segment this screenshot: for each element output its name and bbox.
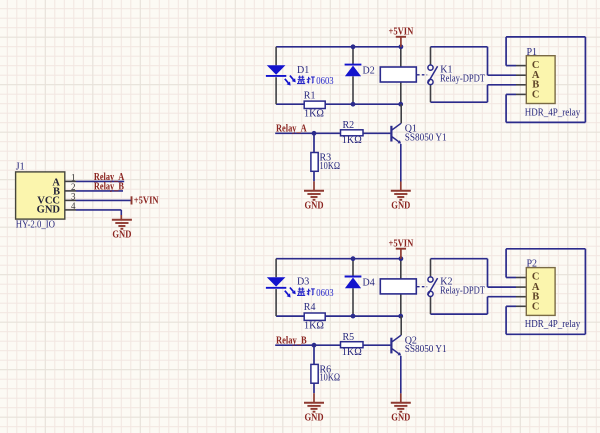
- svg-text:R1: R1: [304, 90, 316, 101]
- svg-text:0603: 0603: [316, 76, 333, 87]
- svg-text:GND: GND: [112, 230, 131, 241]
- svg-text:D4: D4: [363, 277, 375, 288]
- svg-text:SS8050 Y1: SS8050 Y1: [405, 132, 447, 143]
- svg-text:D1: D1: [297, 65, 309, 76]
- svg-text:C: C: [532, 89, 540, 100]
- svg-text:GND: GND: [305, 201, 324, 212]
- svg-text:R5: R5: [343, 332, 355, 343]
- svg-text:2: 2: [71, 182, 76, 192]
- svg-text:+5VIN: +5VIN: [134, 195, 159, 206]
- svg-text:Relay_A: Relay_A: [276, 123, 307, 134]
- svg-text:D2: D2: [363, 66, 375, 77]
- svg-text:Relay_B: Relay_B: [94, 181, 124, 192]
- svg-text:1KΩ: 1KΩ: [342, 135, 362, 146]
- svg-text:+5VIN: +5VIN: [389, 27, 414, 38]
- svg-text:C: C: [532, 301, 540, 312]
- svg-text:GND: GND: [391, 201, 410, 212]
- svg-text:1KΩ: 1KΩ: [304, 109, 324, 120]
- svg-text:HDR_4P_relay: HDR_4P_relay: [525, 319, 580, 330]
- svg-text:10KΩ: 10KΩ: [320, 373, 341, 384]
- svg-text:R2: R2: [343, 120, 355, 131]
- svg-text:+5VIN: +5VIN: [389, 239, 414, 250]
- svg-text:GND: GND: [305, 413, 324, 424]
- svg-text:Relay-DPDT: Relay-DPDT: [440, 74, 485, 85]
- svg-text:HDR_4P_relay: HDR_4P_relay: [525, 107, 580, 118]
- svg-text:4: 4: [71, 201, 76, 211]
- svg-text:1KΩ: 1KΩ: [304, 321, 324, 332]
- svg-text:J1: J1: [16, 161, 25, 172]
- svg-text:D3: D3: [297, 277, 309, 288]
- svg-text:1KΩ: 1KΩ: [342, 347, 362, 358]
- svg-text:HY-2.0_IO: HY-2.0_IO: [16, 219, 55, 230]
- svg-text:10KΩ: 10KΩ: [320, 161, 341, 172]
- svg-text:3: 3: [71, 192, 76, 202]
- svg-text:GND: GND: [37, 205, 61, 216]
- svg-text:Relay-DPDT: Relay-DPDT: [440, 285, 485, 296]
- svg-text:GND: GND: [391, 413, 410, 424]
- svg-text:1: 1: [71, 173, 76, 183]
- svg-text:SS8050 Y1: SS8050 Y1: [405, 344, 447, 355]
- svg-text:R4: R4: [304, 302, 316, 313]
- svg-text:0603: 0603: [316, 288, 333, 299]
- svg-text:Relay_B: Relay_B: [276, 335, 307, 346]
